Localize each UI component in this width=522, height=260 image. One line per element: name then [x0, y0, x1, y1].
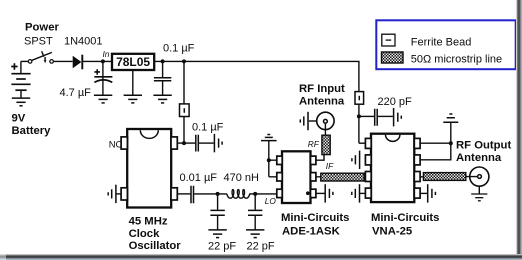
wire node to capacitor C7 220pF [359, 115, 374, 117]
antenna J1 RF input connector [317, 112, 334, 129]
svg-text:ADE-1ASK: ADE-1ASK [282, 226, 341, 238]
wire mixer ground pins column [269, 141, 277, 177]
ground battery [12, 98, 30, 106]
svg-text:RF: RF [308, 139, 320, 149]
wire regulator ground pin [132, 70, 134, 95]
ground sideways capacitor C3 [214, 134, 222, 152]
capacitor C1 4.7uF polarized [94, 69, 112, 82]
wire VNA pin 4 to sideways ground [360, 192, 366, 194]
wire ferrite bead FB2 down to node [358, 104, 360, 143]
wire diode to regulator input [83, 60, 112, 62]
wire VNA-25 output pin to microstrip [420, 176, 478, 178]
svg-text:SPST: SPST [24, 35, 53, 47]
capacitor C7 220pF [375, 109, 378, 126]
node oscillator supply [182, 141, 186, 145]
wire ferrite bead FB1 column [183, 61, 185, 143]
node VNA ground [449, 141, 453, 145]
svg-text:Power: Power [25, 22, 60, 34]
svg-text:Mini-Circuits: Mini-Circuits [371, 212, 439, 224]
wire switch to diode [54, 60, 73, 62]
wire VNA-25 pin 5 to sideways ground [420, 192, 427, 194]
capacitor C4 0.01uF [191, 186, 194, 204]
amplifier U3 VNA-25 body [365, 134, 420, 202]
legend ferrite bead symbol [382, 34, 395, 46]
microstrip output horizontal [423, 173, 465, 181]
legend box [376, 20, 515, 69]
wire RF output antenna to ground [478, 186, 480, 194]
svg-text:1N4001: 1N4001 [64, 35, 103, 47]
ground capacitor C2 [153, 95, 171, 103]
svg-text:9V: 9V [12, 112, 26, 124]
svg-text:IF: IF [326, 161, 334, 171]
node LO junction 1 [216, 192, 220, 196]
svg-text:Ferrite Bead: Ferrite Bead [411, 37, 472, 49]
ground capacitor C1 [94, 95, 112, 103]
wire capacitor C2 column [162, 61, 164, 95]
wire battery positive to switch [20, 61, 22, 73]
svg-text:Antenna: Antenna [299, 95, 345, 107]
ferrite bead FB2 [355, 92, 364, 105]
wire VNA-25 pin 8 to ground node [420, 122, 451, 159]
wire capacitor C3 to sideways ground [199, 142, 214, 144]
ground inverted VNA [443, 114, 458, 122]
legend microstrip swatch [382, 52, 404, 63]
svg-text:220 pF: 220 pF [378, 96, 413, 108]
node bead2 [357, 114, 361, 118]
ground capacitor C6 [246, 230, 264, 238]
svg-text:Clock: Clock [129, 228, 160, 240]
microstrip RF vertical [322, 135, 330, 154]
switch S1 [28, 51, 53, 63]
battery B1 9V [11, 74, 30, 98]
svg-text:Mini-Circuits: Mini-Circuits [281, 212, 349, 224]
antenna J2 RF output connector [470, 167, 489, 186]
wire oscillator output to capacitor C4 [177, 193, 190, 195]
capacitor C2 0.1uF [154, 78, 171, 81]
svg-text:22 pF: 22 pF [247, 241, 275, 253]
wire 22pF capacitor C6 column [254, 194, 256, 230]
ground sideways antenna input [300, 112, 308, 130]
ground sideways capacitor C7 [394, 108, 402, 126]
svg-text:78L05: 78L05 [116, 55, 150, 69]
node bead column [182, 59, 186, 63]
svg-text:RF Output: RF Output [456, 140, 511, 152]
ferrite bead FB1 [180, 104, 190, 117]
node LO junction 2 [253, 192, 257, 196]
ground sideways mixer pin [325, 184, 333, 202]
wire capacitor C4 to inductor L1 [194, 193, 227, 195]
inductor L1 470nH [227, 190, 250, 199]
svg-text:0.1 µF: 0.1 µF [163, 43, 195, 55]
svg-text:4.7 µF: 4.7 µF [60, 87, 92, 99]
wire microstrip to mixer RF pin [316, 155, 324, 161]
svg-text:22 pF: 22 pF [208, 241, 236, 253]
wire node to VNA-25 pin 1 [359, 142, 366, 144]
microstrip IF horizontal [321, 173, 364, 181]
capacitor C6 22pF [248, 210, 262, 215]
oscillator X1 body [121, 129, 177, 208]
wire node In down through capacitor C1 to ground [102, 61, 104, 94]
svg-text:50Ω microstrip line: 50Ω microstrip line [411, 54, 502, 66]
wire antenna shield to sideways ground [309, 120, 317, 122]
wire capacitor C7 to sideways ground [378, 115, 393, 117]
wire mixer pin to sideways ground [316, 192, 325, 194]
ground antenna output [471, 194, 487, 201]
svg-text:NC: NC [109, 139, 123, 150]
ground sideways VNA pin 5 [428, 184, 436, 202]
regulator U1 78L05 [112, 54, 154, 70]
battery plus sign [11, 63, 17, 69]
wire RF input antenna to microstrip [324, 123, 326, 135]
svg-text:470 nH: 470 nH [224, 172, 260, 184]
ground sideways oscillator [108, 185, 116, 203]
svg-text:LO: LO [265, 196, 277, 206]
svg-text:0.01 µF: 0.01 µF [180, 172, 218, 184]
svg-text:VNA-25: VNA-25 [372, 226, 412, 238]
diode D1 1N4001 [73, 55, 83, 70]
mixer U2 ADE-1ASK body [277, 151, 316, 203]
wire regulator output rail [154, 61, 359, 91]
ground sideways VNA pin 4 [352, 184, 360, 202]
node In [101, 59, 105, 63]
ground sideways VNA pin 2 [352, 151, 360, 169]
node regulator output [161, 59, 165, 63]
svg-text:Battery: Battery [12, 125, 52, 137]
svg-text:0.1 µF: 0.1 µF [192, 122, 224, 134]
wire oscillator ground pin to sideways ground [117, 193, 122, 195]
wire IF microstrip stubs [316, 176, 366, 178]
capacitor C3 0.1uF [196, 135, 199, 152]
svg-text:Oscillator: Oscillator [129, 240, 182, 252]
ground regulator [124, 95, 142, 103]
ground inverted mixer [261, 135, 277, 141]
capacitor C5 22pF [210, 210, 224, 215]
wire node to capacitor C3 [184, 142, 195, 144]
svg-text:In: In [103, 49, 110, 59]
wire node to oscillator supply pin [177, 142, 184, 144]
svg-text:Antenna: Antenna [456, 152, 502, 164]
svg-text:45 MHz: 45 MHz [129, 216, 168, 228]
wire 22pF capacitor C5 column [217, 194, 219, 230]
ground capacitor C5 [208, 230, 226, 238]
node mixer ground [267, 158, 271, 162]
svg-text:RF Input: RF Input [299, 83, 345, 95]
wire inductor L1 to mixer LO pin [249, 193, 277, 195]
